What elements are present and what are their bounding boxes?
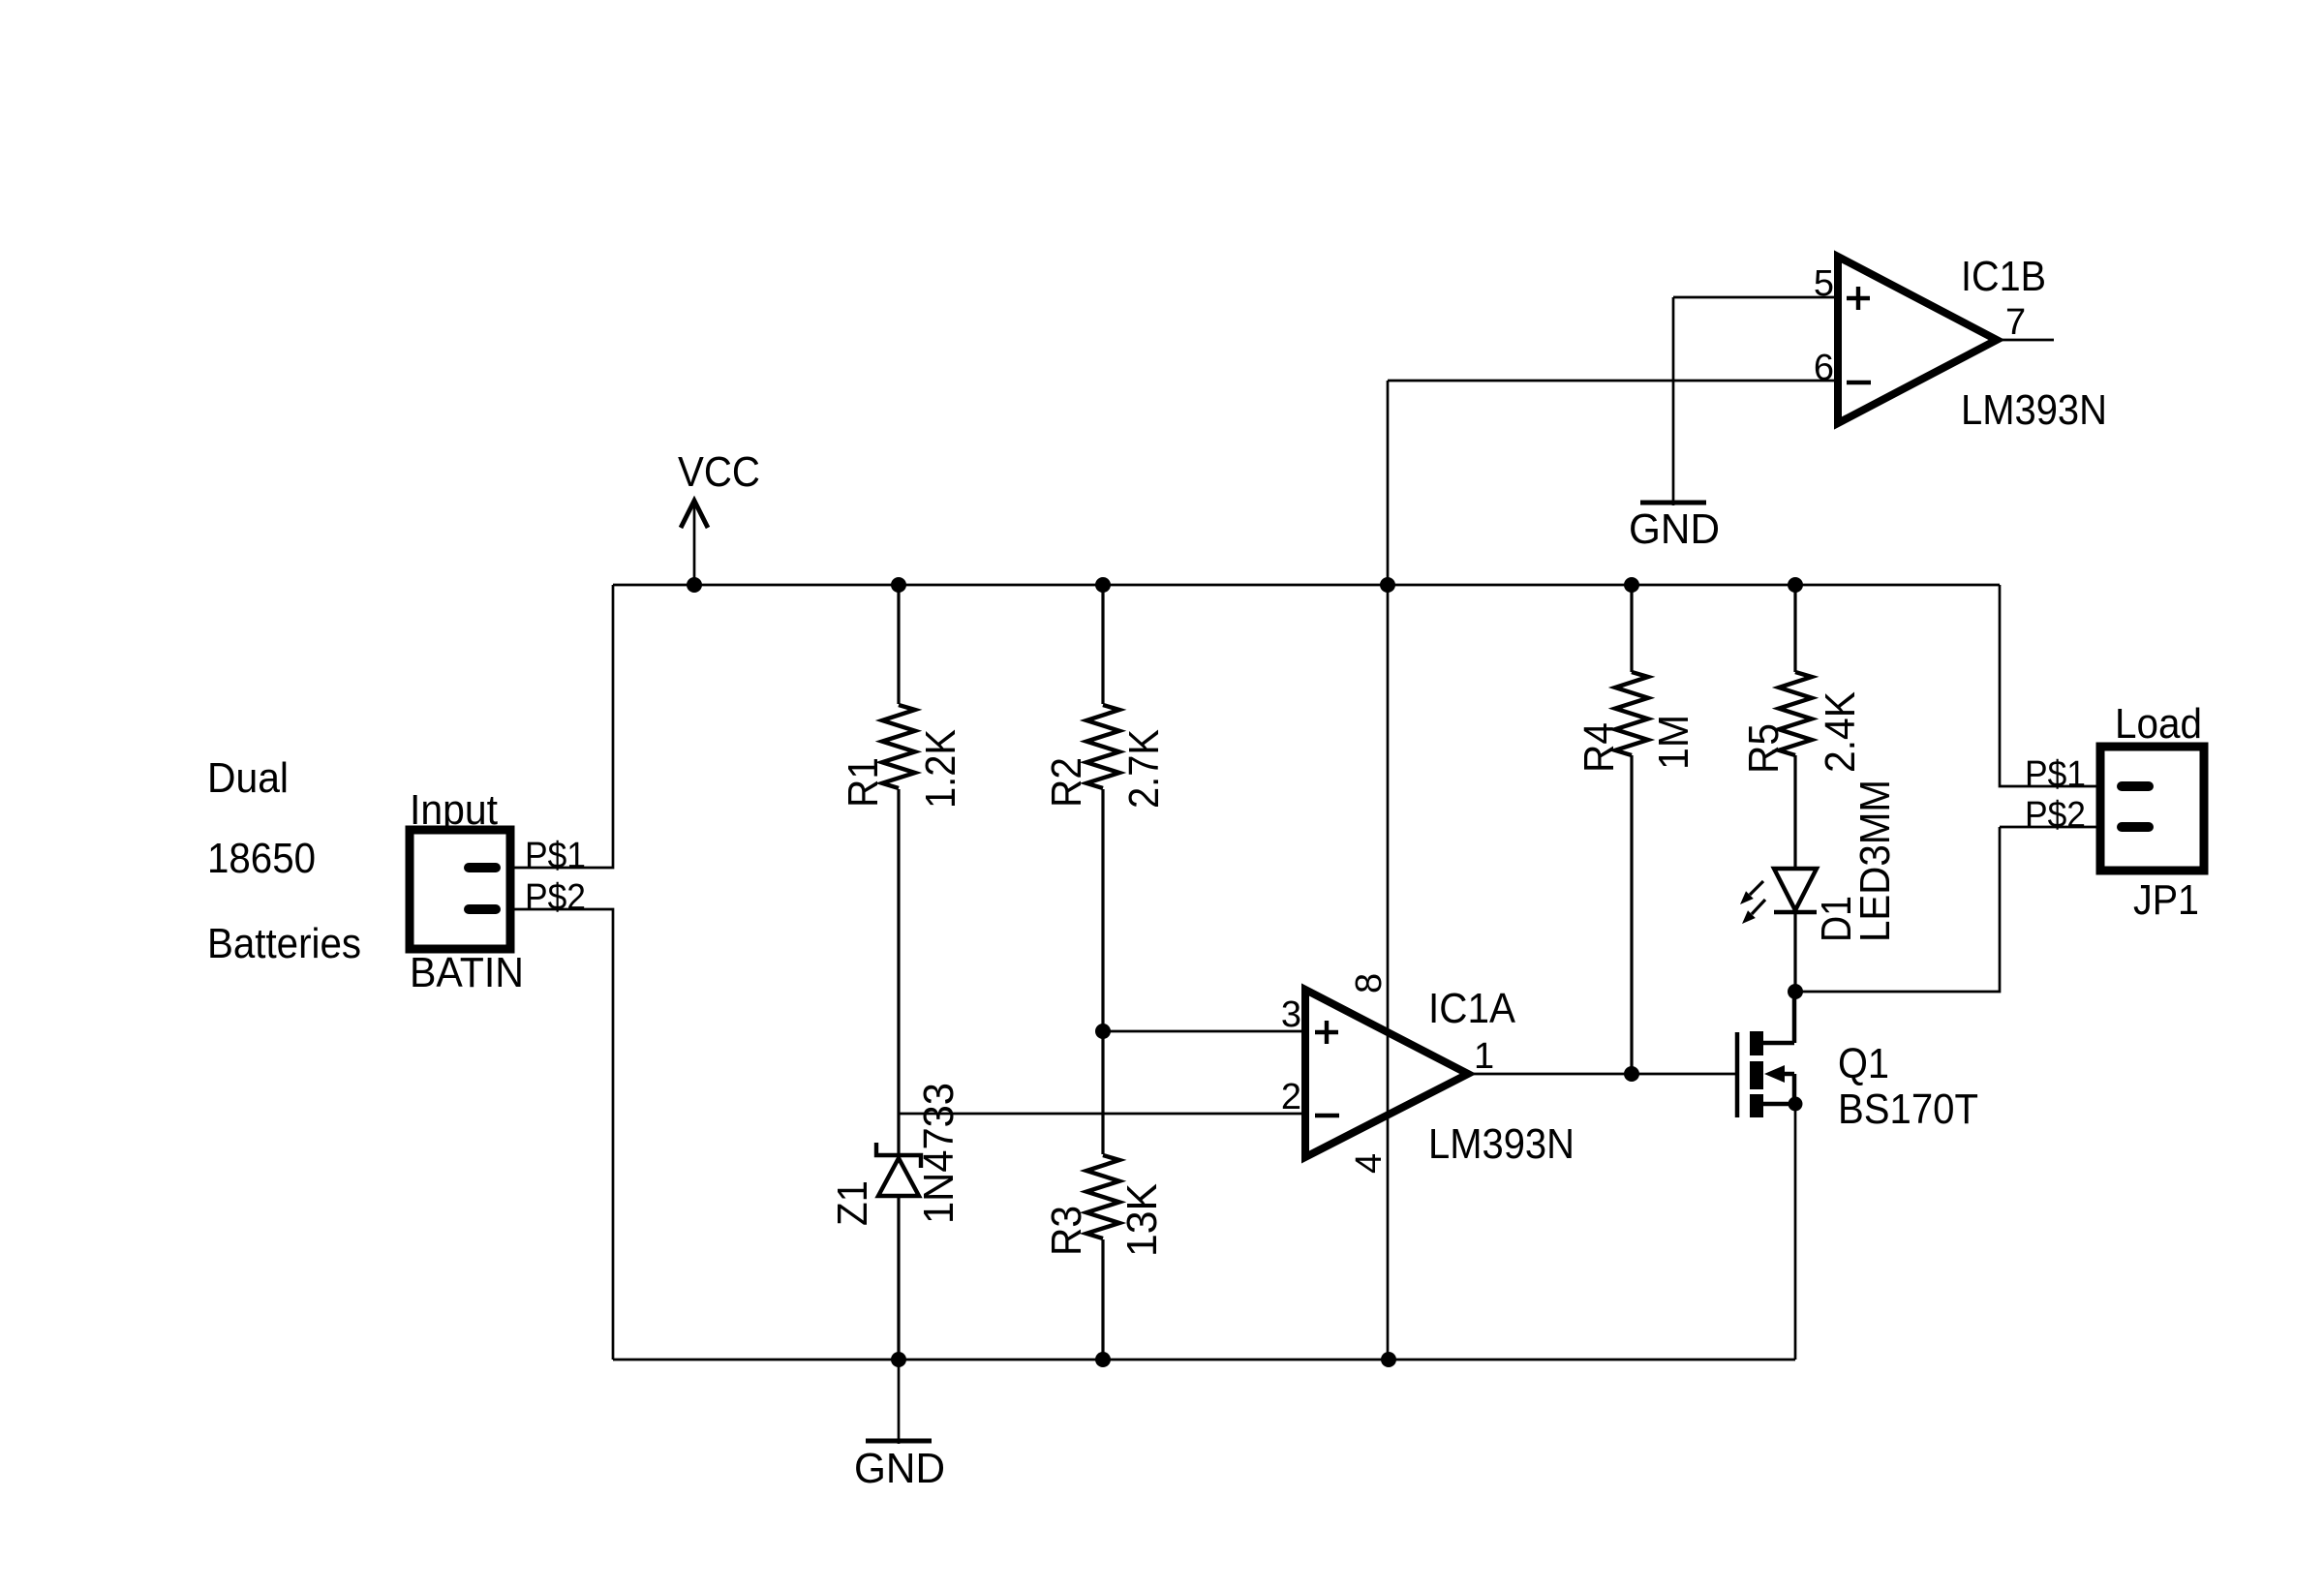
svg-text:GND: GND xyxy=(1629,505,1720,553)
svg-text:Z1: Z1 xyxy=(829,1180,876,1226)
svg-text:P$1: P$1 xyxy=(525,836,586,876)
wire pin5 xyxy=(1673,296,1838,299)
svg-text:Batteries: Batteries xyxy=(207,920,361,967)
connector BATIN box xyxy=(410,830,510,949)
label plus IC1B xyxy=(1847,287,1870,310)
supply symbol VCC xyxy=(681,501,708,585)
ground symbol GND top xyxy=(1640,297,1706,505)
wire load tap xyxy=(1795,827,2000,992)
node junction R5/rail xyxy=(1788,577,1803,593)
svg-text:GND: GND xyxy=(854,1445,945,1492)
node junction R4/output xyxy=(1624,1066,1639,1082)
svg-text:3: 3 xyxy=(1281,994,1301,1035)
svg-text:2.7K: 2.7K xyxy=(1120,729,1168,809)
node junction LED/Q1 drain/load xyxy=(1788,984,1803,999)
wire JP1 P$2 xyxy=(2000,826,2100,829)
label minus IC1A xyxy=(1315,1114,1339,1117)
wire pin7 output xyxy=(1997,339,2054,342)
svg-text:JP1: JP1 xyxy=(2133,876,2199,924)
op-amp IC1A xyxy=(1305,990,1468,1157)
node junction Z1/bottom rail xyxy=(891,1352,906,1367)
svg-text:18650: 18650 xyxy=(207,835,316,882)
node junction R4/rail xyxy=(1624,577,1639,593)
node junction R3/bottom rail xyxy=(1095,1352,1111,1367)
svg-text:1N4733: 1N4733 xyxy=(915,1083,963,1224)
svg-text:P$2: P$2 xyxy=(525,877,586,918)
label plus IC1A xyxy=(1315,1021,1338,1044)
svg-text:VCC: VCC xyxy=(678,448,760,496)
wire pin6 xyxy=(1388,380,1838,382)
svg-text:R4: R4 xyxy=(1575,722,1623,773)
wire left vertical P$1 to rail xyxy=(510,585,613,868)
ground symbol GND bottom xyxy=(866,1360,932,1444)
svg-text:4: 4 xyxy=(1349,1153,1390,1174)
svg-text:7: 7 xyxy=(2005,302,2026,343)
pin BATIN P$1 stub xyxy=(469,863,496,872)
svg-text:13K: 13K xyxy=(1118,1183,1166,1257)
pin JP1 P$1 stub xyxy=(2122,781,2149,791)
node junction VCC/rail xyxy=(687,577,702,593)
svg-text:BS170T: BS170T xyxy=(1838,1085,1978,1133)
wire GND bottom rail xyxy=(613,1359,1795,1361)
svg-text:5: 5 xyxy=(1814,263,1834,304)
node junction R2/rail xyxy=(1095,577,1111,593)
zener diode Z1 xyxy=(876,1143,921,1196)
node Q1 source xyxy=(1789,1097,1803,1112)
svg-text:1.2K: 1.2K xyxy=(917,729,964,809)
wire bottom rail riser to Q1 source xyxy=(1794,1104,1797,1360)
resistor R2 xyxy=(1101,585,1104,1031)
svg-text:LM393N: LM393N xyxy=(1428,1120,1575,1168)
svg-text:LM393N: LM393N xyxy=(1961,386,2107,434)
svg-text:R1: R1 xyxy=(840,757,887,808)
connector JP1 box xyxy=(2100,747,2204,871)
node junction pin4 line/bottom rail xyxy=(1381,1352,1396,1367)
resistor R1 xyxy=(897,585,900,1153)
label minus IC1B xyxy=(1847,381,1871,384)
svg-text:IC1B: IC1B xyxy=(1961,253,2046,300)
wire JP1 P$1 xyxy=(2000,585,2100,786)
wire pin3 xyxy=(1103,1030,1305,1033)
svg-text:Load: Load xyxy=(2115,700,2202,748)
op-amp IC1B xyxy=(1838,257,1997,423)
svg-text:P$1: P$1 xyxy=(2025,754,2086,795)
svg-text:P$2: P$2 xyxy=(2025,795,2086,836)
wire P$2 down left rail xyxy=(510,909,613,1360)
node junction R2/R3/pin3 xyxy=(1095,1024,1111,1039)
svg-text:R3: R3 xyxy=(1043,1206,1090,1256)
svg-text:R5: R5 xyxy=(1740,723,1788,774)
wire pin2 xyxy=(899,1113,1305,1116)
wire pin8/pin4 vertical xyxy=(1387,381,1390,1360)
resistor R4 xyxy=(1630,585,1633,1074)
svg-text:LED3MM: LED3MM xyxy=(1851,780,1899,942)
transistor Q1 xyxy=(1737,992,1794,1117)
svg-text:8: 8 xyxy=(1349,973,1390,994)
LED D1 emission arrows xyxy=(1740,881,1765,924)
svg-text:1M: 1M xyxy=(1650,715,1697,770)
wire IC1A output xyxy=(1468,1073,1737,1076)
svg-text:Dual: Dual xyxy=(207,754,289,802)
svg-text:IC1A: IC1A xyxy=(1428,985,1516,1032)
svg-text:BATIN: BATIN xyxy=(410,949,524,996)
node junction R1/rail xyxy=(891,577,906,593)
node junction pin8 line/rail xyxy=(1380,577,1395,593)
resistor R5 xyxy=(1793,585,1796,869)
svg-text:Input: Input xyxy=(410,786,498,834)
svg-text:2: 2 xyxy=(1281,1077,1301,1117)
pin JP1 P$2 stub xyxy=(2122,822,2149,832)
svg-text:R2: R2 xyxy=(1043,757,1090,808)
pin BATIN P$2 stub xyxy=(469,904,496,914)
svg-text:1: 1 xyxy=(1474,1036,1494,1077)
resistor R3 xyxy=(1101,1031,1104,1360)
wire VCC top rail xyxy=(613,584,2000,587)
svg-text:Q1: Q1 xyxy=(1838,1040,1889,1087)
LED D1 xyxy=(1774,869,1817,912)
svg-text:6: 6 xyxy=(1814,348,1834,388)
svg-text:2.4K: 2.4K xyxy=(1817,691,1864,773)
